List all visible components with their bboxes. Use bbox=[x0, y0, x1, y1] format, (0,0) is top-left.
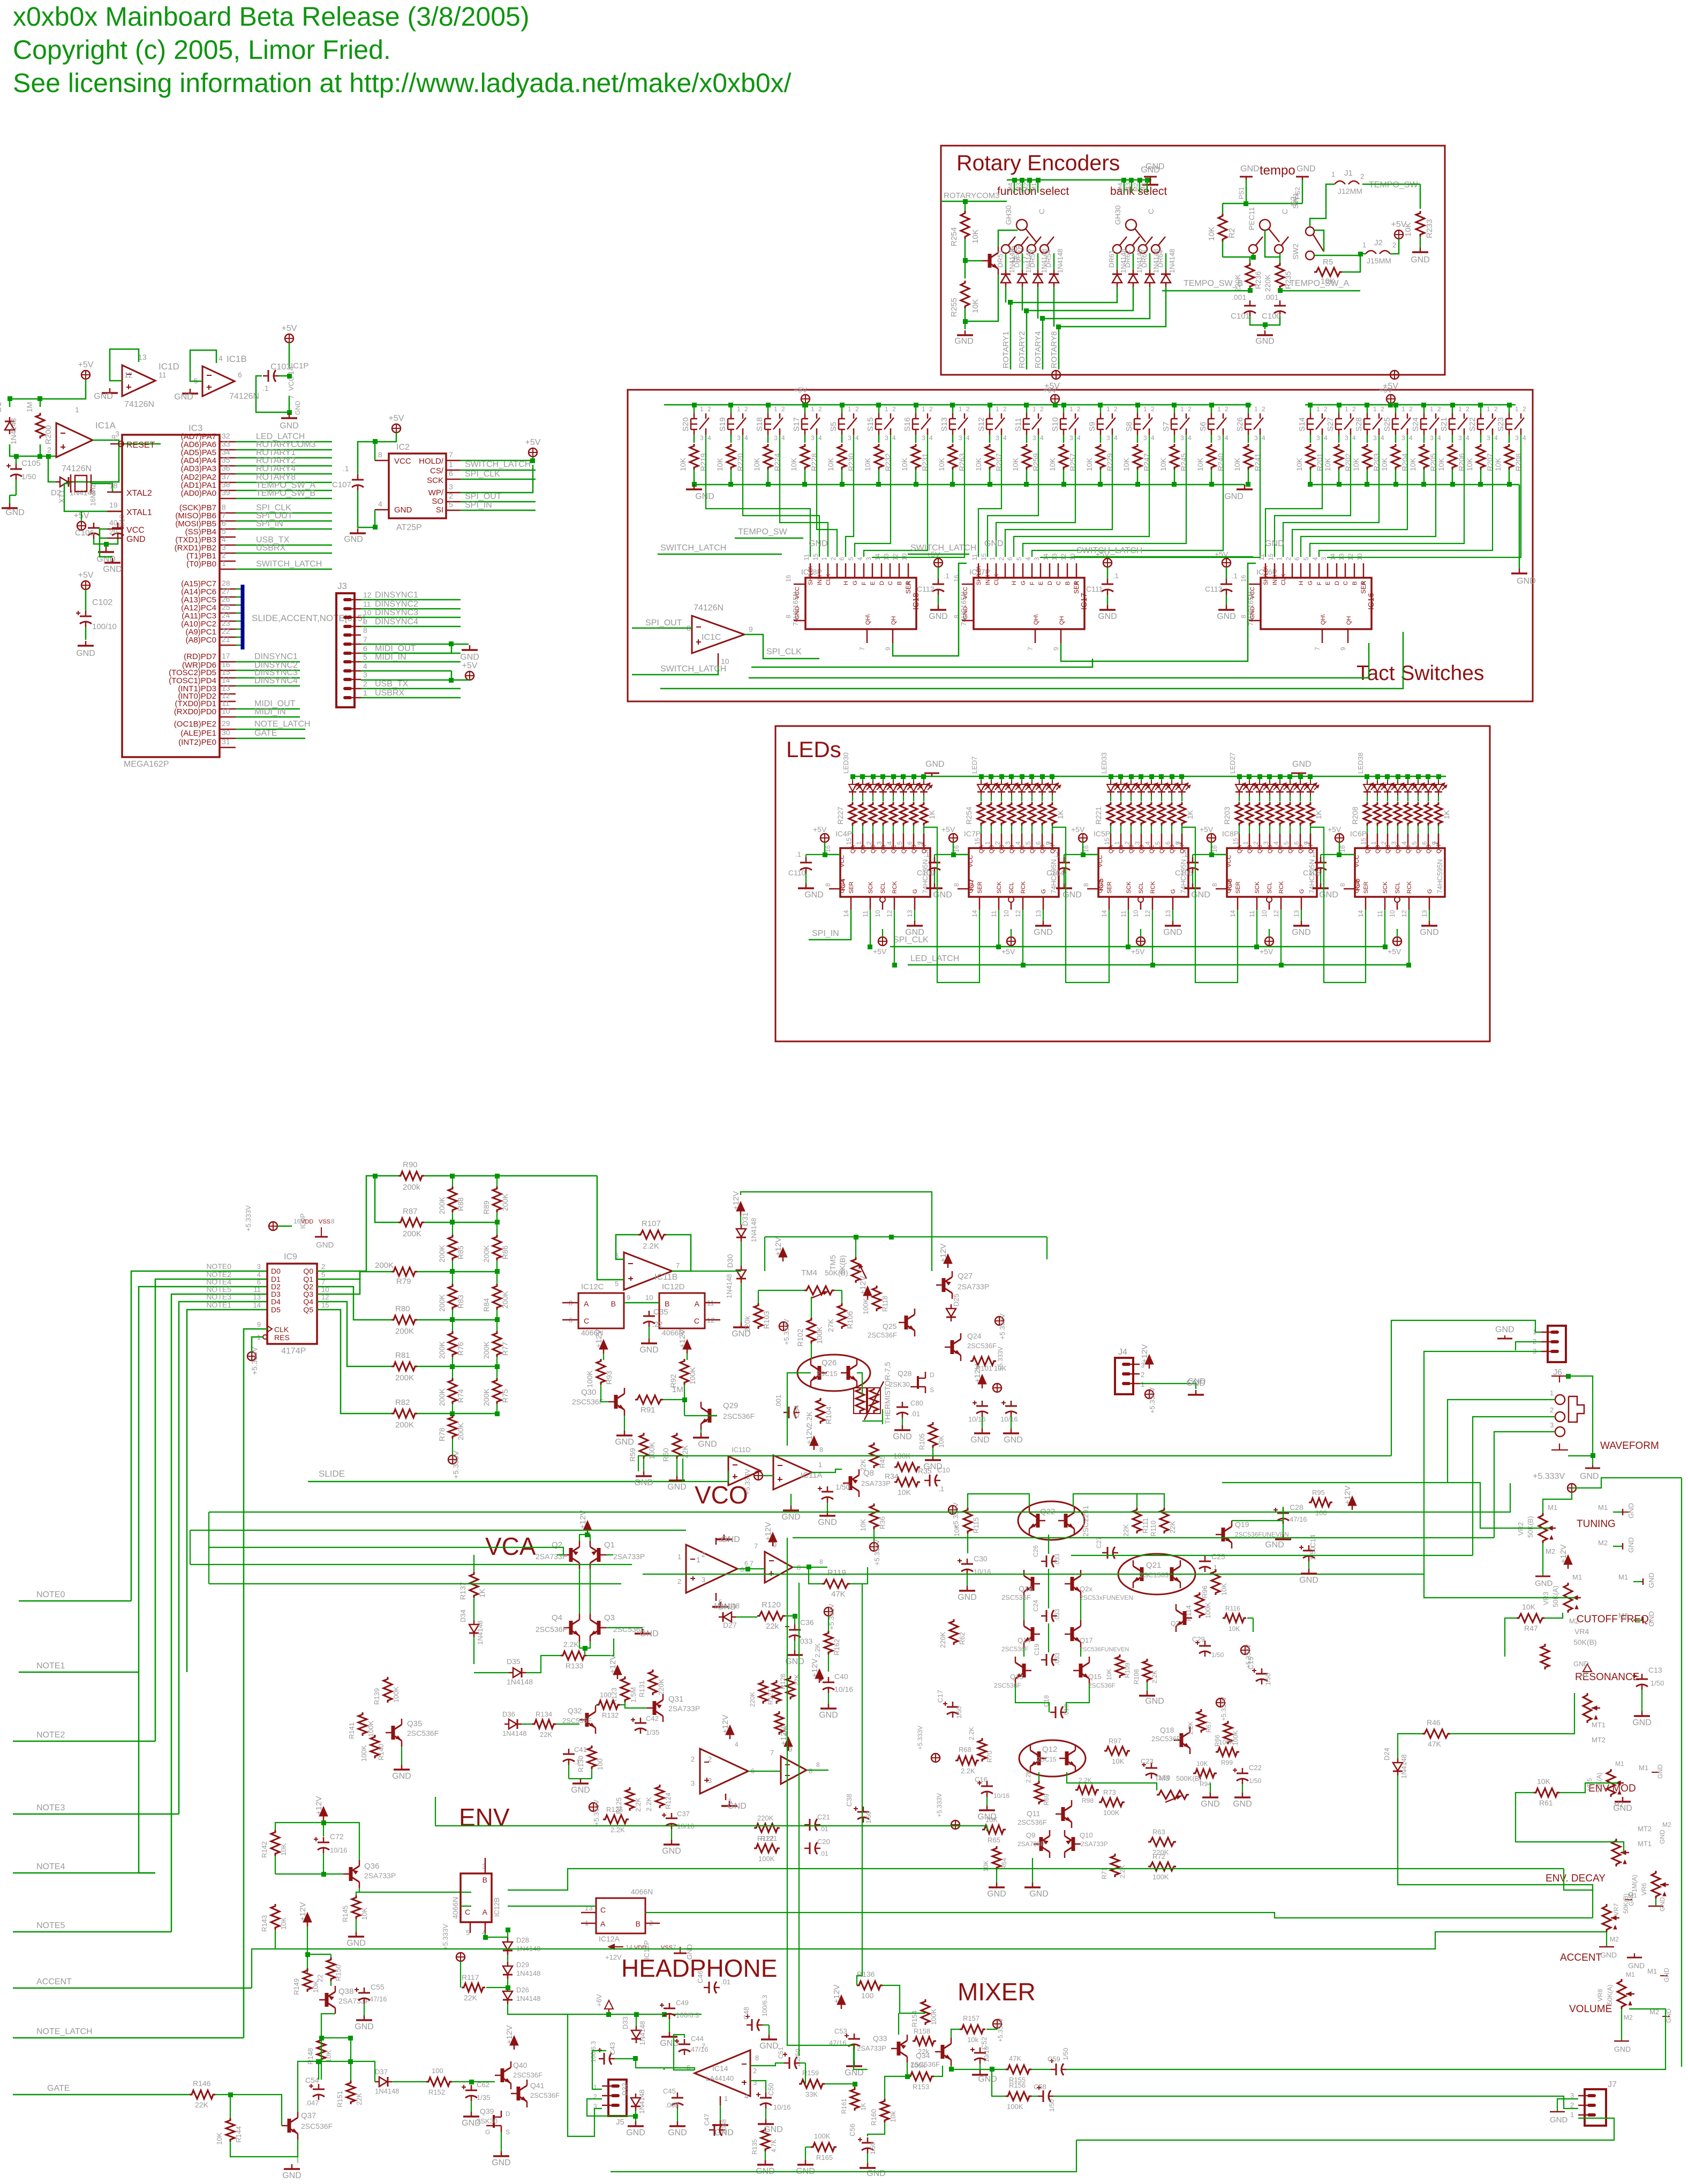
svg-text:C113: C113 bbox=[1205, 585, 1223, 593]
svg-text:+5.333V: +5.333V bbox=[936, 1793, 943, 1817]
pot VR8 50K(A) volume bbox=[1617, 1979, 1626, 2009]
resistor R36 10K bbox=[870, 1503, 878, 1529]
svg-text:IC6P: IC6P bbox=[1350, 829, 1367, 838]
svg-text:D28: D28 bbox=[516, 1936, 529, 1944]
IC5 pin 9 QH* bbox=[1181, 834, 1183, 848]
capacitor C31 10/16 bbox=[1011, 1401, 1012, 1406]
svg-text:5: 5 bbox=[449, 500, 453, 509]
svg-text:R79: R79 bbox=[396, 1277, 411, 1286]
svg-text:1: 1 bbox=[222, 559, 226, 568]
wire ACCENT to VR7 bbox=[252, 1932, 1607, 1988]
svg-text:22K: 22K bbox=[464, 1993, 478, 2002]
svg-text:DINSYNC1: DINSYNC1 bbox=[375, 591, 418, 600]
capacitor C48 100/6.3 bbox=[747, 2024, 752, 2026]
wire Q2/Q1 bases bbox=[557, 1554, 563, 1555]
svg-text:M2: M2 bbox=[1022, 183, 1030, 192]
vertical bundle NOTE2 to IC9 D1 bbox=[155, 1279, 267, 1741]
wire Q5 collector bbox=[998, 230, 1018, 247]
svg-text:5: 5 bbox=[1015, 557, 1023, 561]
ground at IC5 pin 13 bbox=[1172, 910, 1173, 921]
svg-text:3: 3 bbox=[1550, 1421, 1554, 1429]
matched pair Q22 2SC2291 bbox=[1018, 1501, 1084, 1540]
svg-text:1N4148: 1N4148 bbox=[375, 2087, 400, 2095]
svg-text:5: 5 bbox=[1154, 841, 1162, 845]
IC6 GND pin 8 bbox=[1344, 888, 1355, 890]
transistor Q38 2SA733P bbox=[325, 1993, 329, 2007]
long wire switch latch under ICs bbox=[660, 632, 1403, 689]
IC8 VCC pin 16 and +5V bbox=[1207, 834, 1216, 842]
svg-text:R72: R72 bbox=[1152, 1853, 1165, 1861]
svg-text:1: 1 bbox=[737, 405, 741, 413]
svg-text:3: 3 bbox=[1033, 434, 1036, 442]
svg-text:CLK: CLK bbox=[274, 1325, 289, 1334]
IC18 top pin 10 A bbox=[908, 563, 909, 578]
svg-text:74HC595N: 74HC595N bbox=[1436, 859, 1444, 894]
svg-text:2SA733P: 2SA733P bbox=[1018, 1840, 1045, 1848]
svg-text:D33: D33 bbox=[621, 2016, 629, 2029]
svg-text:15: 15 bbox=[812, 553, 819, 561]
svg-text:2: 2 bbox=[1360, 172, 1364, 180]
IC4 output pin 6 QG bbox=[913, 834, 915, 848]
tact switch S24 bbox=[1423, 405, 1425, 413]
svg-text:3: 3 bbox=[691, 1779, 695, 1787]
svg-text:VR6: VR6 bbox=[1640, 1883, 1648, 1895]
svg-text:1: 1 bbox=[724, 2095, 728, 2103]
svg-text:10K: 10K bbox=[679, 457, 687, 471]
svg-text:+12V: +12V bbox=[764, 1522, 773, 1541]
svg-text:J12MM: J12MM bbox=[1338, 187, 1362, 195]
svg-text:1: 1 bbox=[1316, 405, 1320, 413]
svg-text:10K: 10K bbox=[1295, 457, 1303, 471]
svg-text:R81: R81 bbox=[395, 1351, 410, 1360]
diode D28 1N4148 bbox=[503, 1942, 513, 1950]
svg-text:12: 12 bbox=[363, 591, 372, 599]
svg-text:3: 3 bbox=[1143, 434, 1147, 442]
svg-text:C15: C15 bbox=[1247, 1657, 1255, 1669]
IC6 output pin 1 QB bbox=[1377, 834, 1378, 848]
resistor R97 10K bbox=[1104, 1747, 1130, 1755]
tact switch S21 bbox=[1452, 405, 1453, 413]
shift register IC18 74HC165N body bbox=[805, 578, 916, 629]
svg-text:47/16: 47/16 bbox=[1290, 1515, 1307, 1523]
svg-text:GND: GND bbox=[1614, 2045, 1631, 2053]
svg-text:8: 8 bbox=[222, 503, 226, 511]
wire Q5 emitter to R255 bbox=[965, 275, 998, 321]
tact switch S17 bbox=[804, 405, 806, 413]
svg-text:4066N: 4066N bbox=[451, 1897, 459, 1919]
svg-text:ROTARY8: ROTARY8 bbox=[1050, 331, 1059, 368]
ground below C32 bbox=[982, 1417, 983, 1429]
svg-text:C38: C38 bbox=[845, 1794, 853, 1807]
svg-text:R236: R236 bbox=[1254, 271, 1262, 289]
svg-text:11: 11 bbox=[1376, 910, 1384, 917]
wire Q36 base rail bbox=[275, 1873, 343, 1875]
svg-text:10K: 10K bbox=[789, 457, 798, 471]
+5.333V at R68 bbox=[931, 1754, 940, 1762]
svg-text:2: 2 bbox=[998, 557, 1005, 561]
potentiometer VR1 RESONANCE bbox=[1583, 1693, 1592, 1723]
wire Q4/Q3 joined emitters bbox=[579, 1642, 590, 1648]
IC6 pin 9 QH* bbox=[1438, 834, 1440, 848]
svg-text:R152: R152 bbox=[428, 2088, 445, 2096]
svg-text:+12V: +12V bbox=[505, 2026, 514, 2044]
svg-text:17: 17 bbox=[222, 652, 230, 660]
svg-text:12: 12 bbox=[1347, 553, 1354, 561]
svg-text:R110: R110 bbox=[1149, 1521, 1157, 1537]
svg-text:16: 16 bbox=[1240, 575, 1247, 582]
svg-text:C54: C54 bbox=[305, 2076, 319, 2084]
svg-text:SCL: SCL bbox=[880, 882, 886, 894]
IC18 GND pin 8 bbox=[794, 620, 805, 622]
svg-text:200K: 200K bbox=[482, 1245, 491, 1263]
svg-text:SWITCH_LATCH: SWITCH_LATCH bbox=[910, 543, 976, 553]
svg-text:5: 5 bbox=[363, 653, 367, 661]
wire center vertical x1470 bbox=[787, 1538, 868, 2069]
IC17 top pin 3 E bbox=[1040, 563, 1042, 578]
svg-text:MT1: MT1 bbox=[1592, 1721, 1606, 1729]
+12V at headphone right bbox=[837, 1995, 846, 2005]
wire D35/R133 bbox=[474, 1672, 509, 1673]
svg-text:10K: 10K bbox=[1522, 1603, 1536, 1611]
resistor R35 100K bbox=[894, 1463, 920, 1471]
wire J6 pin3 route bbox=[1424, 1351, 1541, 1574]
svg-text:SPI_OUT: SPI_OUT bbox=[465, 492, 502, 501]
+12V above C72 bbox=[319, 1807, 328, 1816]
svg-text:R134: R134 bbox=[536, 1710, 552, 1718]
svg-text:SCK: SCK bbox=[427, 476, 443, 485]
svg-text:(A8)PC0: (A8)PC0 bbox=[185, 636, 216, 645]
svg-text:10K: 10K bbox=[1494, 457, 1502, 471]
IC5 output pin 4 QE bbox=[1151, 834, 1152, 848]
svg-text:M1: M1 bbox=[1548, 1503, 1557, 1512]
svg-text:2SK30: 2SK30 bbox=[477, 2117, 498, 2125]
resistor R142 10K bbox=[271, 1830, 280, 1856]
ground below VR7 M2 bbox=[1606, 1932, 1607, 1947]
svg-text:1: 1 bbox=[996, 405, 999, 413]
resistor R148 10K bbox=[317, 2038, 326, 2061]
svg-text:MIDI_IN: MIDI_IN bbox=[254, 707, 286, 716]
svg-text:DR63: DR63 bbox=[1140, 250, 1148, 268]
wire R90 left bbox=[375, 1176, 398, 1222]
IC6 output pin 4 QE bbox=[1407, 834, 1409, 848]
svg-text:2.2K: 2.2K bbox=[563, 1640, 579, 1649]
resistor R87 200K bbox=[398, 1218, 424, 1227]
svg-text:GND: GND bbox=[392, 1772, 411, 1781]
capacitor C15 1/50 bbox=[1261, 1668, 1263, 1674]
svg-text:GATE: GATE bbox=[47, 2084, 70, 2093]
svg-text:1: 1 bbox=[922, 405, 925, 413]
svg-text:9: 9 bbox=[257, 1320, 261, 1328]
svg-text:15: 15 bbox=[1232, 837, 1239, 845]
resistor R231 10K bbox=[915, 435, 917, 443]
resistor R119 47K bbox=[822, 1580, 850, 1588]
svg-text:(RXD0)PD0: (RXD0)PD0 bbox=[174, 707, 216, 716]
capacitor C38 1/50 bbox=[863, 1807, 864, 1812]
capacitor C101 .001 bbox=[1249, 300, 1251, 306]
svg-text:50K(A): 50K(A) bbox=[1606, 1985, 1614, 2005]
resistor R126 2.2K bbox=[603, 1815, 629, 1824]
potentiometer VR3 50K(A) CUTOFF bbox=[1564, 1583, 1572, 1613]
svg-text:3: 3 bbox=[753, 2079, 757, 2087]
svg-text:Q33: Q33 bbox=[873, 2034, 887, 2043]
svg-text:GND: GND bbox=[1299, 1576, 1318, 1585]
svg-text:R84: R84 bbox=[482, 1298, 491, 1312]
svg-text:1/50: 1/50 bbox=[1651, 1679, 1664, 1687]
+12V right of R85 bbox=[1348, 1496, 1357, 1506]
IC18 top pin 6 H bbox=[845, 563, 847, 578]
wire center vertical x1610 to mixer bbox=[857, 1584, 862, 1985]
svg-text:SCL: SCL bbox=[1138, 882, 1144, 894]
svg-text:4: 4 bbox=[1352, 434, 1356, 442]
+5V tact group 2 bbox=[1051, 395, 1059, 403]
IC16 top pin 15 INH bbox=[1274, 563, 1276, 578]
svg-text:(T0)PB0: (T0)PB0 bbox=[186, 560, 216, 569]
svg-text:R78: R78 bbox=[438, 1427, 446, 1441]
svg-text:R89: R89 bbox=[482, 1200, 491, 1214]
svg-text:9: 9 bbox=[1052, 647, 1060, 651]
svg-text:1: 1 bbox=[855, 841, 863, 845]
svg-text:R153: R153 bbox=[913, 2083, 929, 2091]
svg-text:GND: GND bbox=[174, 392, 193, 402]
svg-text:VR8: VR8 bbox=[1596, 1989, 1604, 2001]
svg-text:+12V: +12V bbox=[939, 1244, 948, 1263]
svg-text:29: 29 bbox=[222, 719, 230, 728]
svg-text:2: 2 bbox=[1392, 241, 1396, 249]
svg-text:C40: C40 bbox=[834, 1672, 848, 1681]
svg-text:.1: .1 bbox=[938, 1485, 944, 1493]
IC18 top pin 13 C bbox=[890, 563, 891, 578]
svg-text:C: C bbox=[694, 1317, 699, 1325]
svg-text:XTAL1: XTAL1 bbox=[126, 508, 152, 517]
wire ENV row y3560 bbox=[461, 1906, 471, 1907]
svg-text:QF: QF bbox=[1029, 845, 1036, 853]
svg-text:GND: GND bbox=[695, 492, 714, 501]
svg-text:S6: S6 bbox=[1199, 422, 1208, 432]
svg-text:D35: D35 bbox=[507, 1657, 521, 1666]
svg-text:2: 2 bbox=[47, 445, 51, 454]
ground below C105 bbox=[9, 503, 11, 508]
svg-text:GND: GND bbox=[94, 392, 113, 401]
resistor R83 200K bbox=[448, 1284, 457, 1310]
IC6 output pin 2 QC bbox=[1387, 834, 1389, 848]
svg-text:GND: GND bbox=[667, 1483, 687, 1492]
wire R117 bbox=[460, 1961, 461, 1987]
svg-text:74126N: 74126N bbox=[124, 400, 154, 409]
ladder row5 rail bbox=[417, 1366, 497, 1367]
svg-text:2: 2 bbox=[321, 1263, 325, 1271]
svg-text:10K: 10K bbox=[974, 457, 983, 471]
svg-text:Q32: Q32 bbox=[568, 1706, 582, 1715]
IC7 output pin 1 QB bbox=[991, 834, 992, 848]
svg-text:13: 13 bbox=[1051, 553, 1058, 561]
ground at ENV MOD bbox=[1622, 1797, 1624, 1802]
svg-text:3: 3 bbox=[959, 434, 962, 442]
tempo encoder pins PS1 PS2 bbox=[1246, 180, 1247, 191]
+6V arrow bbox=[605, 2000, 613, 2009]
resistor R107 2.2K bbox=[638, 1230, 666, 1239]
svg-text:+5V: +5V bbox=[1388, 947, 1401, 956]
svg-text:C45: C45 bbox=[663, 2087, 676, 2095]
svg-text:3: 3 bbox=[1033, 557, 1041, 561]
svg-text:DR62: DR62 bbox=[1124, 250, 1132, 268]
svg-text:3: 3 bbox=[1390, 841, 1398, 845]
svg-text:R76: R76 bbox=[456, 1342, 465, 1356]
svg-text:1: 1 bbox=[1401, 405, 1405, 413]
svg-text:S27: S27 bbox=[1326, 417, 1335, 432]
IC4 output pin 1 QB bbox=[862, 834, 864, 848]
svg-text:9: 9 bbox=[1339, 647, 1347, 651]
svg-text:1/35: 1/35 bbox=[646, 1728, 659, 1736]
svg-text:+12V: +12V bbox=[578, 1510, 587, 1529]
ground below R59 bbox=[643, 1471, 645, 1476]
svg-text:2.2K: 2.2K bbox=[1024, 1770, 1032, 1783]
LED group LED27 (8 LEDs) bbox=[1239, 776, 1240, 781]
+5.333V at J4 bbox=[1145, 1390, 1154, 1399]
resistor R219 10K bbox=[694, 435, 695, 443]
svg-text:R151: R151 bbox=[336, 2091, 344, 2107]
svg-text:S28: S28 bbox=[1354, 417, 1363, 432]
svg-text:VR5: VR5 bbox=[1586, 1778, 1593, 1790]
svg-text:3: 3 bbox=[1106, 434, 1110, 442]
op-amp buffer IC1B 74126N bbox=[202, 366, 235, 396]
svg-text:7: 7 bbox=[858, 647, 866, 651]
svg-text:MIDI_OUT: MIDI_OUT bbox=[375, 644, 416, 653]
svg-text:.001: .001 bbox=[774, 1395, 782, 1408]
svg-text:4: 4 bbox=[1262, 434, 1265, 442]
svg-text:1: 1 bbox=[1276, 557, 1283, 561]
svg-text:1N4148: 1N4148 bbox=[1168, 248, 1176, 273]
IC5 output pin 1 QB bbox=[1120, 834, 1122, 848]
LED group LED38 (8 LEDs) bbox=[1367, 776, 1368, 781]
svg-text:GND: GND bbox=[492, 2158, 511, 2167]
resistor R89 200K bbox=[493, 1187, 501, 1212]
svg-text:SWITCH_LATCH: SWITCH_LATCH bbox=[660, 543, 726, 553]
svg-text:QD: QD bbox=[1009, 844, 1015, 853]
svg-text:Q1: Q1 bbox=[604, 1540, 615, 1550]
IC6 output pin 6 QG bbox=[1428, 834, 1429, 848]
svg-text:2SA733P: 2SA733P bbox=[861, 1479, 891, 1487]
svg-text:200K: 200K bbox=[482, 1341, 491, 1359]
svg-text:J2: J2 bbox=[1374, 238, 1383, 247]
svg-text:MT1: MT1 bbox=[1638, 1840, 1652, 1848]
IC7 output pin 15 QA bbox=[981, 834, 982, 848]
diode D25 1N4148 bbox=[946, 1309, 956, 1317]
svg-text:10K: 10K bbox=[1437, 457, 1445, 471]
svg-text:100/6.3: 100/6.3 bbox=[676, 2011, 699, 2019]
waveform switch pin 1 bbox=[1555, 1395, 1565, 1404]
ground below D30 bbox=[741, 1283, 742, 1323]
svg-text:R165: R165 bbox=[816, 2153, 833, 2162]
+12V near TM4 bbox=[863, 1286, 872, 1296]
svg-text:SCK: SCK bbox=[1382, 881, 1389, 894]
svg-text:VSS: VSS bbox=[319, 1219, 330, 1225]
resistor R255 10K bbox=[961, 281, 969, 308]
svg-text:+12V: +12V bbox=[832, 1985, 841, 2004]
svg-text:2: 2 bbox=[781, 405, 785, 413]
svg-text:10K: 10K bbox=[1112, 1757, 1124, 1765]
svg-text:3: 3 bbox=[1316, 434, 1320, 442]
encoder S3 diodes bbox=[1117, 253, 1118, 270]
svg-text:LED_LATCH: LED_LATCH bbox=[910, 954, 959, 963]
svg-text:HOLD/: HOLD/ bbox=[419, 457, 444, 466]
svg-text:10/16: 10/16 bbox=[773, 2103, 791, 2111]
svg-text:R98: R98 bbox=[1082, 1797, 1094, 1804]
wire R47 to VR4 bbox=[1505, 1618, 1517, 1657]
capacitor C10 .1 bbox=[924, 1480, 930, 1482]
ground right of ACCENT bbox=[1634, 1953, 1635, 1958]
shift register IC6 74HC595N body bbox=[1355, 848, 1445, 897]
transistor row3 right Q15 bbox=[1079, 1664, 1083, 1677]
ground below C107 bbox=[357, 528, 359, 533]
svg-text:NOTE_LATCH: NOTE_LATCH bbox=[254, 720, 311, 729]
svg-text:C41: C41 bbox=[574, 1745, 587, 1754]
svg-text:1: 1 bbox=[818, 1461, 822, 1469]
svg-text:M2: M2 bbox=[1624, 2014, 1633, 2021]
svg-text:D36: D36 bbox=[502, 1710, 515, 1718]
svg-text:C47: C47 bbox=[703, 2114, 711, 2126]
IC7 bottom pins 14 11 10 12 13 bbox=[979, 897, 981, 910]
svg-text:10K: 10K bbox=[1207, 226, 1216, 241]
svg-text:C35: C35 bbox=[653, 1308, 668, 1317]
wire D27 to R120 bbox=[736, 1616, 757, 1618]
svg-text:3: 3 bbox=[700, 434, 704, 442]
resistor R71 2.2K bbox=[1111, 1854, 1119, 1877]
svg-text:Q39: Q39 bbox=[480, 2107, 494, 2115]
svg-text:12: 12 bbox=[1060, 553, 1067, 561]
IC17 VCC pin 16 bbox=[962, 584, 974, 585]
svg-text:100K: 100K bbox=[1152, 1873, 1169, 1881]
decoupling capacitor C105 .1 bbox=[1192, 857, 1194, 863]
svg-text:GND: GND bbox=[1191, 890, 1210, 900]
resistor R245 10K bbox=[1174, 435, 1175, 443]
svg-text:100K: 100K bbox=[814, 2132, 831, 2140]
encoder S3 pins bbox=[1124, 180, 1125, 193]
svg-text:3: 3 bbox=[876, 841, 883, 845]
resistor R115 10K bbox=[963, 1508, 972, 1533]
svg-text:SH/LD\: SH/LD\ bbox=[1263, 566, 1269, 585]
svg-text:R156: R156 bbox=[1009, 2081, 1026, 2089]
svg-text:3: 3 bbox=[774, 434, 778, 442]
svg-text:7: 7 bbox=[770, 1749, 774, 1757]
ladder row3 rail bbox=[417, 1271, 497, 1273]
svg-text:4: 4 bbox=[1400, 841, 1408, 845]
ground below C113 bbox=[1226, 605, 1227, 610]
resistor R93 100K bbox=[597, 1359, 605, 1385]
svg-text:R87: R87 bbox=[403, 1207, 418, 1216]
svg-text:MT2: MT2 bbox=[1592, 1736, 1606, 1744]
resistor R254 10K bbox=[961, 211, 969, 239]
ground below C56 bbox=[867, 2153, 868, 2163]
svg-text:.1: .1 bbox=[343, 464, 349, 473]
svg-text:2SC2291: 2SC2291 bbox=[1081, 1505, 1090, 1537]
transistor Q36 2SA733P bbox=[349, 1867, 353, 1881]
svg-text:GND: GND bbox=[929, 612, 948, 621]
headphone top rail bbox=[562, 2014, 702, 2015]
svg-text:M2: M2 bbox=[1662, 1821, 1671, 1828]
svg-text:GND: GND bbox=[1580, 1472, 1599, 1481]
svg-text:14: 14 bbox=[1329, 553, 1337, 561]
svg-text:8: 8 bbox=[785, 615, 792, 618]
svg-text:9: 9 bbox=[749, 625, 753, 633]
svg-text:DR51: DR51 bbox=[996, 250, 1004, 268]
svg-text:QB: QB bbox=[989, 845, 995, 853]
svg-text:VOLUME: VOLUME bbox=[1569, 2004, 1612, 2015]
transistor Q30 2SC536F bbox=[614, 1395, 618, 1409]
op-amp IC11B bbox=[624, 1252, 672, 1290]
svg-text:R135: R135 bbox=[751, 2139, 758, 2155]
svg-text:10K: 10K bbox=[1229, 1625, 1240, 1633]
svg-text:SCK: SCK bbox=[996, 881, 1003, 894]
